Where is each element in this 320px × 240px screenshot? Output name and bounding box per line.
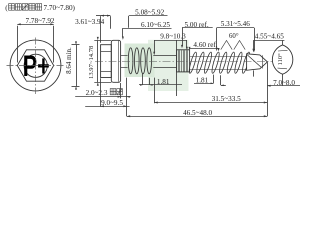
svg-text:8.64 min.: 8.64 min. (65, 47, 73, 74)
svg-text:P+: P+ (23, 50, 50, 83)
svg-text:7.70~7.80): 7.70~7.80) (44, 4, 76, 12)
svg-text:4.55~4.65: 4.55~4.65 (255, 32, 284, 40)
svg-text:110°: 110° (277, 53, 284, 66)
svg-text:31.5~33.5: 31.5~33.5 (212, 95, 241, 103)
svg-text:6.10~6.25: 6.10~6.25 (141, 21, 170, 29)
svg-text:46.5~48.0: 46.5~48.0 (183, 109, 212, 117)
svg-text:9.8~10.3: 9.8~10.3 (160, 33, 186, 41)
svg-text:60°: 60° (229, 33, 239, 40)
svg-text:9.0~9.5: 9.0~9.5 (101, 99, 123, 107)
svg-text:4.60 ref.: 4.60 ref. (193, 41, 217, 49)
svg-text:13.97~14.78: 13.97~14.78 (88, 45, 95, 79)
svg-text:2.0~2.3: 2.0~2.3 (86, 89, 108, 97)
svg-text:5.31~5.46: 5.31~5.46 (221, 20, 250, 28)
